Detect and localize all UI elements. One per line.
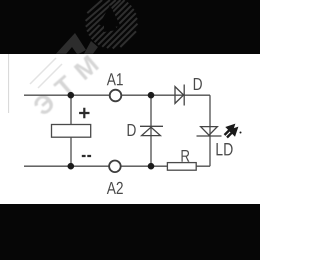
label A2 xyxy=(107,182,123,194)
label D (freewheel diode) xyxy=(128,124,136,136)
left frame line xyxy=(8,54,10,113)
label A1 xyxy=(107,73,123,85)
junction top-left xyxy=(68,92,75,99)
polarity plus label xyxy=(79,108,89,118)
swoosh black cut xyxy=(66,47,77,54)
resistor R xyxy=(167,163,196,171)
wire coil branch vertical xyxy=(70,95,72,166)
wire right LED branch vertical xyxy=(209,95,211,166)
label LD xyxy=(217,143,233,155)
watermark swoosh right chunk xyxy=(84,41,98,54)
watermark light stripes in white area xyxy=(30,58,62,88)
watermark striped ball logo (on top band) xyxy=(86,0,138,49)
label D (top diode) xyxy=(194,78,202,90)
terminal A2 xyxy=(109,161,121,173)
watermark ball M knockout xyxy=(99,5,121,27)
junction bottom-left xyxy=(68,163,75,170)
junction bottom-mid xyxy=(148,163,155,170)
wire top rail A1 xyxy=(24,94,210,96)
wire middle diode branch vertical xyxy=(150,95,152,166)
wire bottom rail A2 xyxy=(24,165,210,167)
watermark text ETM xyxy=(32,55,100,117)
polarity minus label xyxy=(82,155,91,157)
LED LD xyxy=(197,127,222,136)
terminal A1 xyxy=(110,90,122,102)
diode D freewheel (middle) xyxy=(140,126,163,135)
LED sparkle dot xyxy=(240,132,242,134)
label R xyxy=(182,150,190,162)
LED light arrows xyxy=(225,126,237,138)
watermark swoosh (on top band) xyxy=(56,33,86,54)
top black band xyxy=(0,0,260,54)
bottom black band xyxy=(0,204,260,260)
diode D series (top) xyxy=(175,85,184,106)
relay coil xyxy=(52,125,91,138)
junction top-mid xyxy=(148,92,155,99)
